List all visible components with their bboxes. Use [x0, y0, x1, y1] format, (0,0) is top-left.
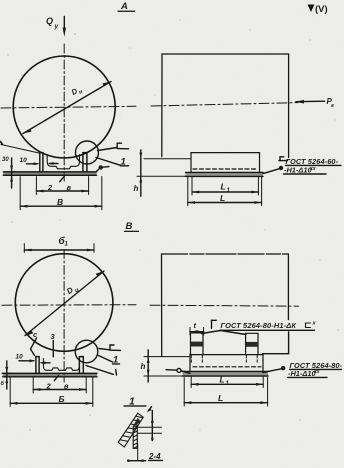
rail channel left wall (top view): [40, 153, 87, 172]
label Dn (bottom): [65, 283, 80, 299]
wheel centerline vertical (top view): [63, 44, 65, 183]
h dim (bottom right): [141, 350, 191, 382]
dim b1 (bottom view top): [24, 235, 94, 252]
svg-text:L: L: [220, 193, 225, 203]
slanted wall section (detail): [118, 413, 143, 447]
surface finish mark (V): [308, 4, 328, 15]
svg-text:в: в: [67, 183, 72, 192]
wheel circle (bottom view): [15, 254, 113, 352]
svg-text:10: 10: [16, 354, 24, 361]
leader label 1 (top view): [96, 157, 129, 168]
label 3 + leader (bottom view): [51, 332, 56, 357]
dim L1 (bottom right): [191, 375, 263, 388]
svg-text:В: В: [126, 221, 133, 232]
svg-text:В: В: [57, 197, 63, 207]
svg-text:2: 2: [47, 183, 53, 192]
svg-text:А: А: [120, 1, 128, 12]
diameter line Dn (bottom): [25, 271, 104, 336]
detail circle 1 (top view): [76, 141, 99, 164]
svg-text:y: y: [54, 23, 59, 30]
dim v (rail width, top view): [36, 176, 88, 194]
base plate (bottom right): [183, 371, 269, 376]
leader flag (bottom view detail): [99, 345, 121, 350]
force Qy label: [46, 16, 59, 30]
dim B outer (bottom view): [10, 378, 93, 407]
weld label GOST (top right): [263, 157, 341, 175]
rail channel inner profile (bottom view): [43, 359, 79, 371]
svg-text:б: б: [1, 380, 5, 387]
wheel circle D: [13, 56, 115, 158]
dim 10 (top view): [20, 157, 59, 165]
svg-text:ГОСТ 5264-80-Н1-ΔК: ГОСТ 5264-80-Н1-ΔК: [221, 321, 297, 330]
svg-text:Б: Б: [59, 394, 65, 404]
wheel rect side view (bottom right): [162, 254, 289, 356]
force P arrow: [295, 97, 335, 109]
plate thickness dim (top view): [7, 158, 18, 188]
label Dn: [70, 84, 84, 99]
svg-text:в: в: [64, 382, 69, 391]
dim 10 (bottom view): [16, 354, 51, 365]
svg-text:10: 10: [20, 157, 28, 164]
dim L (top right): [188, 177, 262, 206]
svg-text:г: г: [331, 103, 334, 109]
svg-text:2-4: 2-4: [148, 452, 161, 461]
hidden dashed line in rail (bottom right): [193, 366, 261, 368]
force Qy arrow: [63, 17, 66, 38]
svg-text:L: L: [218, 393, 223, 403]
svg-text:Q: Q: [46, 16, 53, 26]
svg-text:(V): (V): [315, 4, 328, 15]
plate thickness dim (bottom view): [1, 361, 13, 389]
weld label GOST dK (bottom right): [202, 320, 317, 353]
rail side view box (top right): [191, 153, 260, 172]
svg-text:2: 2: [46, 382, 52, 391]
open dot leader (bottom right left side): [166, 368, 190, 373]
svg-text:h: h: [141, 362, 146, 371]
view label B: [124, 221, 139, 232]
svg-text:h: h: [134, 184, 139, 193]
leader from left edge (cut label): [1, 145, 40, 154]
view label A: [118, 1, 136, 12]
wheel centerline horizontal (top view, extends to side view): [1, 106, 136, 108]
centerline vertical (bottom view): [63, 250, 65, 383]
svg-text:хх: хх: [309, 166, 316, 172]
svg-text:-Н1-Δ10: -Н1-Δ10: [284, 166, 312, 175]
leader flag (top view detail): [98, 143, 129, 150]
svg-text:30: 30: [2, 157, 9, 163]
right stop tab (bottom right): [246, 333, 258, 362]
h dim (top right): [134, 150, 192, 196]
rail channel inner profile (top view): [47, 155, 79, 169]
weld size dim (detail): [138, 411, 162, 441]
weld bead (detail): [133, 418, 142, 427]
svg-text:L: L: [220, 375, 225, 385]
lower leader (bottom view): [86, 366, 117, 376]
base plate (top right): [186, 172, 264, 176]
base plate (bottom view): [3, 373, 97, 377]
hidden dashed line in rail (top right): [193, 168, 258, 170]
leader label 1 (bottom view): [99, 355, 120, 366]
detail circle (bottom view): [75, 340, 98, 363]
weld arrow (detail): [147, 407, 152, 413]
centerline horizontal (bottom view): [2, 304, 136, 307]
weld label GOST d10 (bottom right): [263, 361, 343, 378]
weld dot leader (top view): [97, 165, 109, 171]
detail label 1: [124, 396, 147, 408]
t dim (bottom right): [190, 321, 204, 335]
svg-text:-Н1-Δ10: -Н1-Δ10: [288, 369, 316, 378]
dim 2-4 (detail): [127, 444, 162, 463]
dim L1 (top right): [192, 177, 258, 195]
label c + leader (bottom view): [31, 330, 39, 356]
dim v (bottom view): [33, 375, 86, 393]
plate edge section (detail): [133, 426, 137, 448]
rail side view box (bottom right): [190, 355, 263, 372]
svg-text:L: L: [221, 182, 226, 192]
rail channel right wall (top view): [82, 153, 84, 172]
rail channel walls (bottom view): [36, 357, 83, 374]
dim L (bottom right): [184, 378, 267, 407]
svg-text:хх: хх: [313, 369, 320, 375]
diameter line Dn: [23, 82, 111, 134]
wheel rect side view (top right): [162, 54, 289, 158]
left stop tab (bottom right): [191, 333, 204, 363]
base plate (top view): [3, 172, 96, 176]
dim B outer (top view): [20, 177, 102, 210]
